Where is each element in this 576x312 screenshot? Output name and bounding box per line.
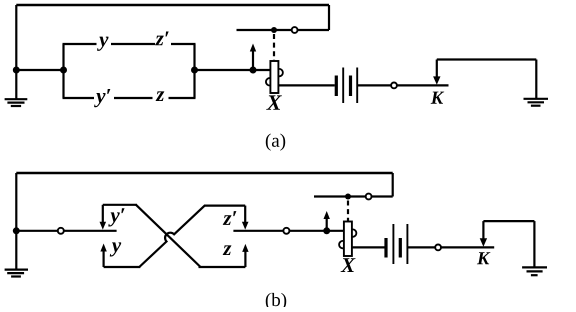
node: dot at left rail (fig a) xyxy=(13,67,20,74)
node: dot at branch left (fig a) xyxy=(60,67,67,74)
wire: top branch segment 2 (fig a) xyxy=(111,43,155,45)
wire: K bracket top (fig a) xyxy=(437,58,537,60)
contact z (fig a) xyxy=(156,91,165,101)
relay K make-contact arrow (fig a) xyxy=(433,60,440,85)
ground GND2 (fig a, right) xyxy=(524,99,549,106)
switch X right hook (fig b) xyxy=(352,229,357,236)
label K (fig a) xyxy=(431,92,445,104)
battery B2 (fig b) xyxy=(386,224,407,264)
armature arrow up (fig a) xyxy=(250,44,256,71)
battery B1 (fig a) xyxy=(336,68,357,104)
wire: left vertical (fig a) xyxy=(15,5,17,99)
caption (a) xyxy=(266,134,285,151)
node: junction dot on holding contact (fig b) xyxy=(345,194,351,200)
contact z make arrow (fig b) xyxy=(242,244,248,267)
wire: transfer output stub to open circle (fig b) xyxy=(233,230,283,232)
wire: crossover descending diagonal (fig b) xyxy=(136,205,201,267)
wire: switch X to battery (fig b) xyxy=(352,246,385,248)
open contact circle (fig a) xyxy=(292,27,298,33)
wire: main row, rail to branch (fig a) xyxy=(16,69,63,71)
label z (fig b) xyxy=(223,245,232,255)
open contact circle before K (fig a) xyxy=(391,83,397,89)
wire: circle to switch X (fig b) xyxy=(289,230,343,232)
wire: top branch segment 3 (fig a) xyxy=(171,43,196,45)
wire: X holding-contact bar right part (fig a) xyxy=(298,29,329,31)
contact y' break arrow (fig b) xyxy=(100,205,107,230)
wire: bottom branch segment 3 (fig a) xyxy=(169,97,196,99)
wire: drop from top wire to X holding contact (fig a) xyxy=(328,5,330,30)
label X (fig b) xyxy=(341,258,356,272)
open contact circle mid (fig b) xyxy=(283,228,289,234)
armature arrow up (fig b) xyxy=(324,211,330,231)
wire: top branch segment 1 (fig a) xyxy=(63,43,97,45)
caption (b) xyxy=(266,293,286,310)
node: dot before switch X (fig a) xyxy=(250,67,257,74)
wire: z' horizontal (fig b) xyxy=(204,205,245,207)
ground GND1 (fig a, left) xyxy=(5,99,28,106)
wire: rail to open circle (fig b) xyxy=(16,230,58,232)
label z' (fig b) xyxy=(223,211,237,225)
wire: X holding-contact bar left part (fig b) xyxy=(314,195,365,197)
wire: branch left vertical (fig a) xyxy=(62,44,64,98)
wire: circle to K stub end (fig b) xyxy=(441,246,494,248)
dashed mechanical link to X (fig b) xyxy=(347,201,349,222)
switch X body (fig a) xyxy=(270,61,278,93)
wire: z horizontal (fig b) xyxy=(199,266,246,268)
wire: X holding-contact bar left part (fig a) xyxy=(237,29,292,31)
node: dot at branch right (fig a) xyxy=(191,67,198,74)
wire: battery to open circle (fig a) xyxy=(357,84,391,86)
wire: top horizontal (fig a) xyxy=(16,4,329,7)
wire: y horizontal (fig b) xyxy=(104,266,141,268)
wire: y' horizontal (fig b) xyxy=(103,204,137,206)
switch X body (fig b) xyxy=(344,222,352,257)
wire: branch to switch X (fig a) xyxy=(195,69,271,71)
wire: X holding-contact bar right part (fig b) xyxy=(372,195,393,197)
wire: K bracket drop to ground (fig a) xyxy=(535,60,537,99)
wire: bottom branch segment 2 (fig a) xyxy=(114,97,153,99)
switch X left hook (fig b) xyxy=(339,241,344,248)
wire: branch right vertical (fig a) xyxy=(193,44,195,98)
wire: switch X to battery (fig a) xyxy=(278,84,334,86)
wire: top horizontal (fig b) xyxy=(16,172,392,175)
wire: left vertical (fig b) xyxy=(15,173,17,269)
node: dot at left rail (fig b) xyxy=(13,227,20,234)
label K (fig b) xyxy=(477,252,491,264)
contact y make arrow (fig b) xyxy=(100,244,106,268)
open contact circle left (fig b) xyxy=(58,228,64,234)
wire: crossover ascending diagonal with hop (fig b) xyxy=(139,206,204,267)
ground GND3 (fig b, left) xyxy=(5,270,28,277)
switch X right hook (fig a) xyxy=(278,69,283,76)
wire: circle to K stub end (fig a) xyxy=(397,84,449,86)
open contact circle before K (fig b) xyxy=(435,245,441,251)
wire: K bracket drop to ground (fig b) xyxy=(533,221,535,267)
contact y (fig a) xyxy=(97,37,108,51)
open contact circle (fig b) xyxy=(366,194,372,200)
contact z' break arrow (fig b) xyxy=(242,206,249,230)
ground GND4 (fig b, right) xyxy=(522,267,547,275)
wire: bottom branch segment 1 (fig a) xyxy=(63,97,95,99)
contact y' (fig a) xyxy=(94,89,110,107)
label y' (fig b) xyxy=(108,208,124,226)
wire: drop from top wire to X holding contact (fig b) xyxy=(392,173,394,197)
label X (fig a) xyxy=(266,95,282,109)
switch X left hook (fig a) xyxy=(266,78,271,85)
wire: K bracket top (fig b) xyxy=(483,220,534,222)
node: dot before switch X (fig b) xyxy=(323,227,330,234)
label y (fig b) xyxy=(110,242,121,256)
dashed mechanical link to X (fig a) xyxy=(273,34,275,60)
wire: battery to open circle (fig b) xyxy=(407,246,435,248)
relay K make-contact arrow (fig b) xyxy=(480,221,487,247)
contact z' (fig a) xyxy=(155,32,169,46)
wire: circle to transfer common stub (fig b) xyxy=(64,230,117,232)
node: junction dot on holding contact (fig a) xyxy=(271,27,277,33)
